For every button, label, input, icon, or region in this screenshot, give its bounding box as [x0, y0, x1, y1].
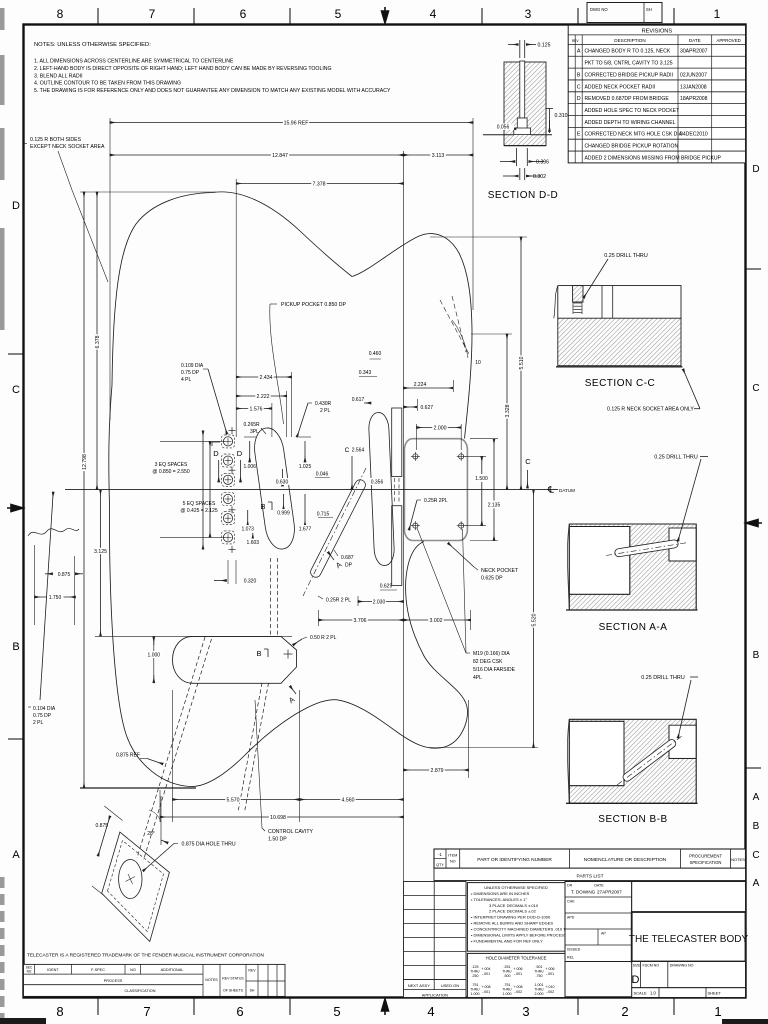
svg-text:.750: .750 [536, 974, 543, 978]
svg-text:0.75 DP: 0.75 DP [181, 370, 200, 376]
cavity to jack dashes [238, 683, 262, 812]
svg-text:SH: SH [250, 989, 255, 993]
svg-text:2 PL: 2 PL [33, 720, 44, 726]
svg-text:.250: .250 [472, 974, 479, 978]
svg-text:ADDED NECK POCKET RADII: ADDED NECK POCKET RADII [585, 84, 656, 90]
svg-text:13JAN2008: 13JAN2008 [680, 84, 707, 90]
revisions table [568, 25, 745, 163]
svg-text:0.356: 0.356 [371, 480, 384, 486]
neck pocket screw holes [413, 454, 418, 459]
dim 1.006 [244, 436, 256, 438]
svg-text:ITEM: ITEM [448, 854, 457, 858]
svg-text:02JUN2007: 02JUN2007 [680, 72, 707, 78]
svg-text:A: A [577, 49, 581, 55]
svg-text:NO: NO [130, 968, 136, 972]
svg-text:C: C [577, 84, 581, 90]
svg-text:30APR2007: 30APR2007 [680, 49, 708, 55]
svg-text:6.378: 6.378 [95, 335, 101, 348]
svg-text:+.008: +.008 [481, 985, 490, 989]
svg-text:THRU: THRU [502, 988, 512, 992]
neck pickup pocket [252, 426, 298, 551]
dims 2.434 / 2.222 / 1.576 [291, 372, 293, 437]
svg-text:0.343: 0.343 [359, 370, 372, 376]
svg-text:PARTS LIST: PARTS LIST [576, 873, 603, 879]
svg-text:0.875: 0.875 [96, 823, 109, 829]
svg-text:5/16 DIA FARSIDE: 5/16 DIA FARSIDE [473, 667, 516, 673]
dim 5.510 [520, 237, 522, 490]
svg-text:℄: ℄ [547, 485, 554, 495]
svg-text:DP: DP [345, 563, 353, 569]
svg-text:PKT TO 5/8, CNTRL CAVITY TO 3.: PKT TO 5/8, CNTRL CAVITY TO 3.125 [585, 61, 673, 67]
dim 2.879 [404, 769, 469, 771]
svg-text:27APR2007: 27APR2007 [597, 890, 622, 895]
svg-text:ADDED DEPTH TO WIRING CHANNEL: ADDED DEPTH TO WIRING CHANNEL [585, 120, 676, 126]
svg-text:0.627: 0.627 [421, 405, 434, 411]
svg-text:12.798: 12.798 [82, 454, 88, 470]
svg-text:SH: SH [646, 7, 652, 12]
svg-text:DATUM: DATUM [559, 488, 575, 493]
svg-text:PROCUREMENT: PROCUREMENT [689, 854, 722, 859]
bridge slot lower [392, 506, 402, 586]
dim 0.999 [283, 494, 285, 510]
svg-text:NO: NO [450, 860, 456, 864]
centering arrow left [7, 505, 23, 512]
svg-text:1.073: 1.073 [241, 527, 254, 533]
svg-text:0.25R 2 PL: 0.25R 2 PL [326, 598, 351, 604]
svg-text:6: 6 [240, 7, 247, 21]
bridge slot upper [392, 408, 402, 477]
svg-text:4: 4 [430, 7, 437, 21]
svg-text:-.001: -.001 [482, 990, 490, 994]
svg-text:0.75 DP: 0.75 DP [33, 713, 52, 719]
svg-text:3.002: 3.002 [430, 618, 443, 624]
svg-text:8: 8 [57, 7, 64, 21]
svg-text:5.520: 5.520 [531, 613, 537, 626]
svg-text:NOTES: NOTES [731, 857, 745, 862]
svg-text:CLASSIFICATION: CLASSIFICATION [125, 989, 156, 993]
svg-text:SHEET: SHEET [708, 991, 722, 996]
svg-text:5 EQ SPACES: 5 EQ SPACES [183, 501, 216, 507]
svg-text:4PL: 4PL [473, 675, 482, 681]
zone ticks left [8, 353, 23, 355]
svg-text:0.50 R 2 PL: 0.50 R 2 PL [310, 635, 337, 641]
svg-text:0.630: 0.630 [276, 480, 289, 486]
svg-text:NEXT ASSY: NEXT ASSY [408, 983, 430, 988]
angle 28 deg [160, 796, 162, 845]
dimension 7.378 [236, 183, 403, 185]
svg-text:4 PL: 4 PL [181, 377, 192, 383]
svg-text:+.006: +.006 [545, 967, 554, 971]
jack plate extension lines [104, 806, 122, 821]
svg-text:1: 1 [714, 7, 721, 21]
svg-text:FSCM NO: FSCM NO [643, 964, 660, 968]
svg-text:.251: .251 [504, 965, 511, 969]
svg-text:3 PLACE DECIMALS ±.010: 3 PLACE DECIMALS ±.010 [489, 903, 539, 908]
svg-text:SECTION D-D: SECTION D-D [488, 190, 559, 201]
svg-text:D: D [752, 164, 759, 175]
svg-text:B: B [753, 821, 760, 832]
hole diameter tolerance box [467, 953, 565, 997]
svg-text:0.25R 2PL: 0.25R 2PL [424, 498, 448, 504]
jack plate detail [102, 832, 170, 941]
jack drill channel A-A [614, 539, 678, 557]
svg-text:0.396: 0.396 [536, 160, 549, 166]
svg-text:3: 3 [522, 1004, 529, 1019]
svg-text:D: D [577, 96, 581, 102]
jack hole [119, 860, 142, 899]
svg-text:C: C [752, 850, 759, 861]
svg-text:0.109 DIA: 0.109 DIA [181, 363, 204, 369]
svg-text:-.002: -.002 [546, 990, 554, 994]
svg-text:2.434: 2.434 [260, 375, 273, 381]
svg-text:REV STATUS: REV STATUS [222, 976, 244, 980]
svg-text:USED ON: USED ON [441, 983, 459, 988]
svg-text:4. OUTLINE CONTOUR TO BE TAKEN: 4. OUTLINE CONTOUR TO BE TAKEN FROM THIS… [34, 81, 181, 87]
section B-B [569, 719, 696, 803]
svg-text:B: B [260, 502, 265, 511]
bottom dims 5.570 / 4.560 / 10.698 [172, 690, 174, 822]
svg-text:APD: APD [567, 916, 575, 920]
svg-text:• CONCENTRICITY MACHINED DIAME: • CONCENTRICITY MACHINED DIAMETERS .010 … [471, 927, 570, 932]
svg-text:CONTROL CAVITY: CONTROL CAVITY [268, 829, 314, 835]
dims 2.224 / 0.627 [452, 380, 454, 392]
zone ticks top [97, 8, 99, 24]
zone ticks bottom [97, 998, 99, 1015]
svg-text:• DIMENSIONAL LIMITS APPLY BEF: • DIMENSIONAL LIMITS APPLY BEFORE PROCES… [471, 933, 572, 938]
svg-text:.500: .500 [504, 974, 511, 978]
svg-text:0.629: 0.629 [380, 584, 393, 590]
svg-text:3: 3 [525, 7, 532, 21]
svg-text:0.625 DP: 0.625 DP [481, 576, 503, 582]
svg-text:1.001: 1.001 [535, 983, 544, 987]
svg-text:@ 0.425 = 2.125: @ 0.425 = 2.125 [180, 508, 217, 514]
svg-text:1.576: 1.576 [250, 406, 263, 412]
svg-text:+.004: +.004 [481, 967, 490, 971]
svg-text:10: 10 [475, 360, 481, 366]
svg-text:0.125 R BOTH SIDES: 0.125 R BOTH SIDES [30, 137, 82, 143]
svg-text:18APR2008: 18APR2008 [680, 96, 708, 102]
svg-text:ADDED HOLE SPEC TO NECK POCKET: ADDED HOLE SPEC TO NECK POCKET [585, 108, 680, 114]
svg-text:B: B [12, 641, 19, 653]
svg-text:0.875 DIA HOLE THRU: 0.875 DIA HOLE THRU [182, 842, 236, 848]
title block name/date rows [565, 882, 632, 962]
svg-text:0.046: 0.046 [316, 472, 329, 478]
dim 1.603 [252, 533, 254, 539]
svg-text:REVISIONS: REVISIONS [642, 29, 673, 35]
svg-text:A: A [753, 878, 760, 889]
wiring channel tube [309, 478, 367, 579]
svg-text:T. DOWING: T. DOWING [571, 890, 596, 895]
application block [404, 980, 467, 998]
svg-text:1.000: 1.000 [148, 653, 161, 659]
extension lines horizontal [80, 191, 216, 193]
svg-text:SECTION B-B: SECTION B-B [598, 814, 667, 825]
svg-text:1.750: 1.750 [49, 595, 62, 601]
size / fscm / dwg row [632, 962, 746, 988]
svg-text:B: B [753, 650, 760, 661]
dwg-no box above border [587, 3, 662, 23]
svg-text:3.125: 3.125 [94, 549, 107, 555]
svg-text:-.001: -.001 [546, 972, 554, 976]
svg-text:2.000: 2.000 [535, 992, 544, 996]
svg-text:UNLESS OTHERWISE SPECIFIED: UNLESS OTHERWISE SPECIFIED [484, 885, 548, 890]
svg-text:1.0: 1.0 [650, 991, 656, 996]
svg-text:CHANGED BODY R TO 0.125, NECK: CHANGED BODY R TO 0.125, NECK [585, 49, 671, 55]
svg-text:THRU: THRU [470, 970, 480, 974]
svg-text:04DEC2010: 04DEC2010 [680, 132, 708, 138]
svg-text:• TOLERANCES: ANGLES ± 1°: • TOLERANCES: ANGLES ± 1° [471, 897, 527, 902]
svg-text:APPROVED: APPROVED [716, 38, 740, 43]
svg-text:7: 7 [149, 7, 156, 21]
svg-text:CORRECTED BRIDGE PICKUP RADII: CORRECTED BRIDGE PICKUP RADII [585, 72, 674, 78]
svg-text:SECTION C-C: SECTION C-C [585, 378, 656, 389]
svg-text:2.879: 2.879 [431, 768, 444, 774]
centering arrow right [746, 520, 762, 527]
svg-text:• DIMENSIONS ARE IN INCHES: • DIMENSIONS ARE IN INCHES [471, 891, 530, 896]
dim 2.135 [493, 439, 495, 541]
svg-text:0.104 DIA: 0.104 DIA [33, 706, 56, 712]
section C-C [558, 286, 681, 366]
svg-text:6: 6 [236, 1004, 243, 1019]
eq spaces dims [202, 431, 204, 550]
svg-text:0.875: 0.875 [58, 572, 71, 578]
svg-text:NECK POCKET: NECK POCKET [481, 568, 519, 574]
svg-text:0.25 DRILL THRU: 0.25 DRILL THRU [654, 455, 698, 461]
svg-text:THE TELECASTER BODY: THE TELECASTER BODY [629, 934, 749, 945]
svg-text:0.056: 0.056 [497, 125, 510, 131]
body lower cutaway and bottom edge [109, 505, 467, 787]
svg-text:• INTERPRET DRAWING PER DOD-D-: • INTERPRET DRAWING PER DOD-D-1000 [471, 915, 551, 920]
svg-text:28°: 28° [147, 831, 155, 837]
svg-text:0.310: 0.310 [555, 113, 568, 119]
svg-text:5.570: 5.570 [227, 797, 240, 803]
dim 1.500 [481, 456, 483, 525]
svg-text:1.025: 1.025 [299, 464, 312, 470]
control cavity [173, 636, 297, 683]
dimension 6.378 [96, 192, 98, 490]
scale row [632, 988, 746, 998]
svg-text:PART OR IDENTIFYING NUMBER: PART OR IDENTIFYING NUMBER [477, 857, 552, 863]
svg-text:2.135: 2.135 [488, 503, 501, 509]
svg-text:DRAWING NO: DRAWING NO [670, 964, 694, 968]
svg-text:1.000: 1.000 [471, 992, 480, 996]
dim 1.073 [247, 510, 249, 526]
svg-text:0.430R: 0.430R [315, 401, 332, 407]
dimension 12.847 [110, 154, 404, 156]
svg-text:PROCESS: PROCESS [104, 979, 123, 983]
neck pocket [404, 439, 467, 541]
zone ticks right [746, 268, 761, 270]
svg-text:DESCRIPTION: DESCRIPTION [614, 38, 645, 43]
jack drill channel B-B [621, 738, 677, 783]
svg-text:2 PL: 2 PL [320, 408, 331, 414]
svg-text:2.564: 2.564 [352, 448, 365, 454]
bridge pickup pocket [368, 412, 395, 566]
section A-A [569, 524, 696, 610]
svg-text:1.603: 1.603 [247, 540, 260, 546]
svg-text:2.030: 2.030 [373, 600, 386, 606]
svg-text:0.875 REF: 0.875 REF [116, 753, 140, 759]
svg-text:ISSUED: ISSUED [567, 948, 581, 952]
svg-text:THRU: THRU [470, 988, 480, 992]
section D-D [504, 61, 546, 146]
svg-text:0.265R: 0.265R [244, 422, 261, 428]
svg-text:REV: REV [572, 39, 580, 43]
svg-text:REV: REV [248, 969, 256, 973]
svg-text:0.125: 0.125 [538, 43, 551, 49]
svg-text:+.008: +.008 [513, 985, 522, 989]
svg-text:7.378: 7.378 [313, 181, 326, 187]
svg-text:C: C [12, 384, 20, 396]
svg-text:F-SPEC: F-SPEC [91, 968, 105, 972]
dims 3.706 / 3.002 [318, 610, 320, 626]
svg-text:THRU: THRU [534, 988, 544, 992]
svg-text:1: 1 [714, 1004, 721, 1019]
svg-text:1.000: 1.000 [503, 992, 512, 996]
svg-text:E: E [577, 132, 581, 138]
svg-text:8: 8 [56, 1004, 63, 1019]
svg-text:5.510: 5.510 [519, 356, 525, 369]
svg-text:THRU: THRU [502, 970, 512, 974]
svg-text:PICKUP POCKET 0.850 DP: PICKUP POCKET 0.850 DP [281, 302, 347, 308]
scan edge marks left [0, 8, 5, 30]
svg-text:2.000: 2.000 [434, 425, 447, 431]
svg-text:2: 2 [621, 1004, 628, 1019]
svg-text:10.698: 10.698 [270, 815, 286, 821]
centering arrow bottom [382, 999, 389, 1015]
svg-text:0.125 R NECK SOCKET AREA ONLY: 0.125 R NECK SOCKET AREA ONLY [607, 407, 694, 413]
svg-text:5: 5 [335, 7, 342, 21]
svg-text:+.006: +.006 [513, 967, 522, 971]
svg-text:THRU: THRU [534, 970, 544, 974]
svg-text:5. THE DRAWING IS FOR REFERENC: 5. THE DRAWING IS FOR REFERENCE ONLY AND… [34, 88, 391, 94]
svg-text:.751: .751 [504, 983, 511, 987]
string ferrules [223, 437, 232, 446]
svg-text:SIZE: SIZE [633, 964, 641, 968]
svg-text:0.25 DRILL THRU: 0.25 DRILL THRU [641, 675, 685, 681]
svg-text:3 EQ SPACES: 3 EQ SPACES [155, 462, 188, 468]
svg-text:0.460: 0.460 [369, 351, 382, 357]
svg-text:NOTES: NOTES [205, 978, 218, 982]
dim 1.677 [304, 494, 306, 526]
svg-text:5: 5 [333, 1004, 340, 1019]
strap/jack position dims [34, 545, 36, 625]
svg-text:D: D [632, 974, 640, 986]
dimension 3.113 [404, 154, 474, 156]
svg-text:CORRECTED NECK MTG HOLE CSK DI: CORRECTED NECK MTG HOLE CSK DIA [585, 132, 683, 138]
svg-text:1.006: 1.006 [243, 464, 256, 470]
qty rows table [404, 882, 467, 980]
svg-text:2. LEFT-HAND BODY IS DIRECT OP: 2. LEFT-HAND BODY IS DIRECT OPPOSITE OF … [34, 66, 332, 72]
svg-text:A: A [12, 849, 20, 861]
svg-text:B: B [256, 649, 261, 658]
svg-text:TELECASTER IS A REGISTERED TRA: TELECASTER IS A REGISTERED TRADEMARK OF … [27, 953, 264, 959]
svg-text:NOMENCLATURE OR DESCRIPTION: NOMENCLATURE OR DESCRIPTION [584, 857, 667, 863]
svg-text:C: C [345, 447, 350, 454]
svg-text:.751: .751 [472, 983, 479, 987]
svg-text:NO: NO [27, 970, 32, 974]
svg-text:@ 0.850 = 2.550: @ 0.850 = 2.550 [152, 469, 189, 475]
svg-text:C: C [752, 383, 759, 394]
svg-text:AP: AP [601, 932, 606, 936]
svg-text:3.113: 3.113 [432, 153, 445, 159]
svg-text:REMOVED 0.687DP FROM BRIDGE: REMOVED 0.687DP FROM BRIDGE [585, 96, 670, 102]
svg-text:0.687: 0.687 [341, 555, 354, 561]
datum centerline [65, 489, 558, 491]
svg-text:EXCEPT NECK SOCKET AREA: EXCEPT NECK SOCKET AREA [30, 144, 105, 150]
svg-text:2 PLACE DECIMALS ±.02: 2 PLACE DECIMALS ±.02 [489, 909, 537, 914]
dim 0.320 [227, 560, 229, 584]
svg-text:DR: DR [567, 884, 573, 888]
svg-text:0.617: 0.617 [352, 397, 365, 403]
title box [632, 882, 746, 913]
angle 10 deg [440, 300, 470, 356]
svg-text:15.96 REF: 15.96 REF [284, 120, 309, 126]
dim 1.025 [299, 436, 311, 438]
svg-text:M19 (0.166) DIA: M19 (0.166) DIA [473, 651, 510, 657]
svg-text:C: C [525, 457, 531, 466]
svg-text:CHK: CHK [567, 900, 575, 904]
svg-text:3.706: 3.706 [354, 618, 367, 624]
svg-text:3. BLEND ALL RADII: 3. BLEND ALL RADII [34, 73, 83, 79]
guitar body outline [109, 192, 472, 505]
svg-text:D: D [12, 200, 20, 212]
squiggle break mark [28, 528, 79, 536]
parts list header [434, 849, 746, 868]
svg-text:DATE: DATE [594, 884, 604, 888]
title block unless-otherwise box [467, 883, 565, 952]
svg-text:0.25 DRILL THRU: 0.25 DRILL THRU [604, 253, 648, 259]
svg-text:A: A [753, 792, 760, 803]
svg-text:SECTION A-A: SECTION A-A [599, 622, 668, 633]
svg-text:1.50 DP: 1.50 DP [268, 837, 287, 843]
svg-text:0.715: 0.715 [317, 512, 330, 518]
dimension 3.125 [100, 490, 102, 637]
svg-text:.501: .501 [536, 965, 543, 969]
svg-text:-.001: -.001 [514, 972, 522, 976]
svg-text:SPECIFICATION: SPECIFICATION [690, 860, 722, 865]
extension lines vertical [109, 118, 111, 420]
svg-text:1.500: 1.500 [475, 476, 488, 482]
dim 3.328 [506, 334, 508, 490]
svg-text:-.001: -.001 [482, 972, 490, 976]
svg-text:12.847: 12.847 [272, 153, 288, 159]
scan marks bottom corners [0, 1018, 46, 1024]
dim 5.520 [533, 490, 535, 748]
dim 0.630 [282, 469, 284, 486]
svg-text:D: D [213, 449, 219, 458]
svg-text:0.320: 0.320 [244, 579, 257, 585]
dimension 1.000 cavity height [153, 636, 155, 683]
svg-text:QTY: QTY [436, 863, 444, 867]
svg-text:ADDITIONAL: ADDITIONAL [161, 968, 184, 972]
svg-text:DWG NO: DWG NO [590, 7, 608, 12]
svg-text:7: 7 [143, 1004, 150, 1019]
dim 2.030 [357, 596, 359, 606]
svg-text:3.328: 3.328 [505, 404, 511, 417]
svg-text:0.999: 0.999 [277, 511, 290, 517]
svg-text:82 DEG CSK: 82 DEG CSK [473, 659, 503, 665]
svg-text:2.222: 2.222 [257, 394, 270, 400]
svg-text:DATE: DATE [689, 38, 701, 43]
dimension 12.798 [83, 192, 85, 788]
dimension 15.96 REF [110, 122, 473, 124]
parts list row [434, 868, 746, 880]
jack channel dashes [137, 637, 205, 858]
svg-text:0.302: 0.302 [533, 174, 546, 180]
svg-text:D: D [237, 449, 243, 458]
svg-text:HOLE DIAMETER TOLERANCE: HOLE DIAMETER TOLERANCE [486, 956, 547, 961]
